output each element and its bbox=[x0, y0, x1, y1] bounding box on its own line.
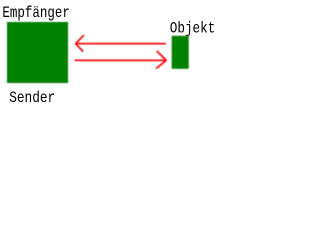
svg-text:Empfänger: Empfänger bbox=[2, 4, 70, 22]
reflected wave arrow (to receiver, pointing left) bbox=[75, 35, 166, 51]
emitted wave arrow (to object, pointing right) bbox=[75, 51, 167, 69]
sender/receiver box bbox=[7, 22, 68, 83]
svg-text:Objekt: Objekt bbox=[170, 20, 216, 38]
svg-text:Sender: Sender bbox=[9, 89, 55, 107]
object box bbox=[172, 36, 189, 69]
